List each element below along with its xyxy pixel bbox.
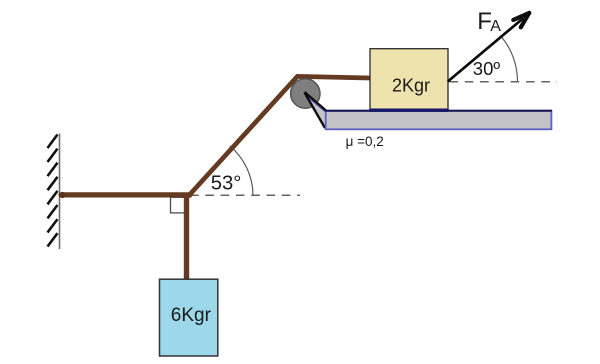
rod anchor cap [59,192,65,198]
right angle square [171,197,186,213]
arc 30 [502,37,518,81]
platform dark top edge [325,110,552,112]
svg-text:53°: 53° [211,173,242,195]
svg-text:A: A [490,18,501,35]
wedge support fill [305,93,327,128]
wall [48,134,60,250]
force arrow FA line [448,18,524,82]
rod vertical [184,193,189,280]
wedge black upper edge [305,92,327,111]
box 2Kgr [370,49,448,111]
box 2Kgr bottom navy edge [369,108,448,111]
platform [326,111,552,130]
pulley [291,79,320,108]
box 6Kgr [160,279,218,356]
dashed line 30 [450,81,558,83]
svg-text:2Kgr: 2Kgr [392,76,430,96]
arc 53 [230,146,253,195]
dashed line 53 [190,194,300,196]
svg-text:6Kgr: 6Kgr [171,305,212,326]
rod diagonal and rope to box [188,76,370,196]
wedge black lower edge [305,93,326,129]
rod horizontal [61,192,190,197]
force arrow FA head [513,13,529,27]
svg-text:μ =0,2: μ =0,2 [346,134,384,149]
svg-text:30º: 30º [473,58,501,79]
wedge navy edge [306,95,327,113]
